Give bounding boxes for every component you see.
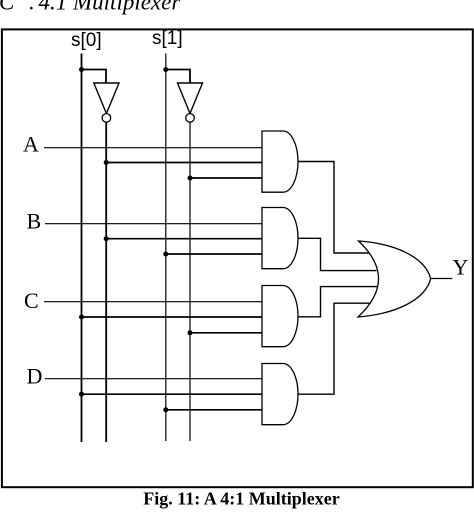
svg-text:D: D: [27, 364, 43, 389]
wire ~s[0] to gate G1: [106, 162, 262, 164]
junction dot s[0] to gate G3: [79, 315, 84, 320]
wire input B: [45, 223, 262, 225]
svg-text:.: .: [29, 0, 35, 15]
junction dot ~s[1] to gate G3: [188, 330, 193, 335]
wire input A: [44, 147, 262, 149]
junction dot ~s[0] to gate G1: [104, 160, 109, 165]
and-gate G1 (input A): [262, 131, 298, 192]
wire s[0] vertical: [81, 54, 83, 443]
junction dot s[1] tap to inverter: [163, 67, 168, 72]
wire s[1] to inverter U2 input: [166, 70, 190, 84]
and-gate G3 (input C): [262, 286, 298, 347]
svg-text:4.1 Multiplexer: 4.1 Multiplexer: [39, 0, 182, 15]
wire G2 output to or-gate: [298, 238, 377, 270]
junction dot ~s[1] to gate G1: [188, 176, 193, 181]
junction dot s[1] to gate G2: [163, 252, 168, 257]
section title C. 4.1 Multiplexer (cut off at top): [0, 0, 181, 15]
svg-text:s[1]: s[1]: [152, 28, 183, 49]
svg-text:C: C: [24, 288, 39, 313]
wire or-gate output Y: [431, 278, 453, 280]
inverter U1 (s[0]): [94, 83, 119, 122]
and-gate G2 (input B): [262, 208, 298, 269]
wire ~s[0] vertical: [105, 122, 107, 442]
junction dot s[0] to gate G4: [79, 392, 84, 397]
or-gate U3 (output stage): [358, 241, 431, 317]
svg-text:Y: Y: [453, 255, 469, 280]
wire ~s[1] to gate G1: [190, 177, 262, 179]
wire ~s[0] to gate G2: [106, 238, 262, 240]
inverter U2 (s[1]): [178, 83, 203, 122]
wire input D: [45, 378, 262, 380]
wire s[0] to inverter U1 input: [82, 70, 107, 84]
junction dot s[1] to gate G4: [163, 407, 168, 412]
junction dot ~s[0] to gate G2: [104, 236, 109, 241]
wire s[0] to gate G3: [82, 316, 263, 318]
junction dot s[0] tap to inverter: [79, 67, 84, 72]
wire s[1] to gate G2: [166, 253, 262, 255]
wire ~s[1] to gate G3: [190, 332, 262, 334]
wire s[1] to gate G4: [166, 409, 262, 411]
svg-text:B: B: [27, 209, 42, 234]
wire s[0] to gate G4: [82, 393, 263, 395]
wire input C: [44, 301, 262, 303]
and-gate G4 (input D): [262, 364, 298, 425]
wire G4 output to or-gate: [298, 303, 371, 394]
svg-text:A: A: [23, 132, 39, 157]
wire s[1] vertical: [165, 54, 167, 442]
svg-text:C: C: [0, 0, 15, 15]
wire G1 output to or-gate: [298, 162, 370, 254]
wire ~s[1] vertical: [189, 122, 191, 441]
wire G3 output to or-gate: [298, 287, 377, 317]
svg-text:s[0]: s[0]: [71, 30, 102, 51]
svg-text:Fig. 11: A 4:1 Multiplexer: Fig. 11: A 4:1 Multiplexer: [143, 488, 339, 508]
